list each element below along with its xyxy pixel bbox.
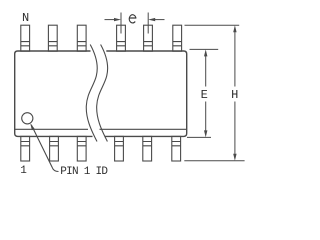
svg-text:H: H (231, 88, 238, 102)
svg-text:PIN 1 ID: PIN 1 ID (60, 166, 108, 178)
svg-text:E: E (201, 88, 208, 102)
top pin 1 (21, 25, 30, 51)
dimension e extension line pin5 (147, 13, 149, 34)
package body right portion outline (100, 51, 187, 136)
bottom pin 2 (50, 136, 59, 161)
break line left (86, 45, 97, 142)
dimension e left arrow (105, 18, 122, 21)
bottom pin 4 (115, 136, 124, 161)
dimension E line with arrows (204, 49, 207, 137)
bottom pin 6 (172, 136, 181, 161)
top pin 4 (117, 25, 126, 51)
label e (129, 15, 136, 23)
dimension H extension line top (185, 24, 240, 26)
package body left portion outline (15, 51, 93, 136)
svg-text:N: N (22, 11, 29, 25)
svg-text:1: 1 (20, 165, 27, 177)
top pin 3 (77, 25, 86, 51)
top pin 6 (173, 25, 182, 51)
top pin 5 (144, 25, 153, 51)
dimension e right arrow (148, 18, 164, 21)
dimension e extension line pin4 (120, 13, 122, 34)
bottom pin 3 (77, 136, 86, 161)
pin 1 ID circle (22, 113, 33, 124)
dimension H extension line bottom (184, 160, 244, 162)
bottom pin 1 (21, 136, 30, 161)
dimension E extension line top (190, 48, 219, 50)
dimension H line with arrows (233, 25, 236, 161)
break line right (97, 45, 108, 142)
bottom pin 5 (143, 136, 152, 161)
dimension E extension line bottom (187, 136, 211, 138)
top pin 2 (48, 25, 57, 51)
leader line PIN 1 ID (30, 123, 58, 171)
